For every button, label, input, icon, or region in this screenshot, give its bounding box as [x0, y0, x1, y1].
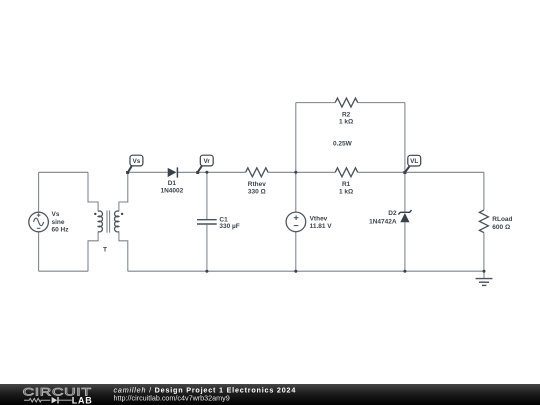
svg-text:Vthev: Vthev — [310, 216, 328, 223]
svg-text:VL: VL — [410, 158, 418, 165]
svg-text:1 kΩ: 1 kΩ — [339, 119, 353, 126]
svg-text:sine: sine — [52, 219, 65, 226]
wire C1 branch upper — [206, 172, 208, 219]
wire D2 lower — [404, 222, 406, 271]
svg-text:330 Ω: 330 Ω — [248, 189, 266, 196]
junction VL node — [403, 171, 406, 174]
voltage source Vthev — [286, 212, 332, 232]
wire D2 upper — [404, 172, 406, 212]
wire C1 branch lower — [206, 225, 208, 272]
capacitor C1 — [197, 217, 240, 231]
svg-text:60 Hz: 60 Hz — [52, 227, 70, 234]
ground — [476, 271, 493, 285]
wire RLoad vertical upper — [483, 172, 485, 210]
svg-text:600 Ω: 600 Ω — [492, 224, 510, 231]
junction Vthev top rail — [294, 171, 297, 174]
wire primary bottom lead — [88, 232, 98, 272]
wire R2 branch left vertical — [295, 103, 297, 173]
svg-text:R1: R1 — [342, 181, 351, 188]
resistor Rthev — [246, 168, 269, 196]
wire secondary bottom lead — [119, 232, 128, 272]
diode D1 — [161, 167, 184, 194]
wire left vertical top — [38, 172, 40, 212]
svg-text:Vs: Vs — [52, 211, 60, 218]
svg-text:LAB: LAB — [72, 395, 93, 405]
wire main top rail: node Vs to D1 — [128, 171, 168, 173]
wire bottom left loop — [39, 270, 88, 272]
node Vs flag — [126, 155, 143, 174]
wire Vthev lower — [295, 232, 297, 271]
junction D2 bottom rail — [403, 270, 406, 273]
resistor R1 — [335, 168, 358, 196]
wire secondary top lead — [119, 172, 128, 211]
svg-text:D1: D1 — [168, 180, 177, 187]
zener diode D2 — [369, 210, 411, 226]
wire RLoad vertical lower — [483, 233, 485, 272]
junction C1 top rail — [205, 171, 208, 174]
transformer T — [94, 210, 123, 253]
svg-text:1N4742A: 1N4742A — [369, 219, 397, 226]
junction Vthev bottom rail — [294, 270, 297, 273]
svg-text:http://circuitlab.com/c4v7wrb3: http://circuitlab.com/c4v7wrb32amy9 — [114, 393, 230, 402]
voltage source Vs — [29, 211, 69, 234]
wire R2 branch right vertical — [404, 103, 406, 173]
svg-text:1 kΩ: 1 kΩ — [339, 188, 353, 195]
resistor R2 — [333, 98, 358, 147]
wire Vthev upper — [295, 172, 297, 212]
footer bar — [0, 384, 540, 405]
svg-text:R2: R2 — [342, 111, 351, 118]
wire R2 top right — [358, 102, 405, 104]
svg-text:Vs: Vs — [132, 158, 140, 165]
svg-text:0.25W: 0.25W — [333, 141, 353, 148]
svg-text:1N4002: 1N4002 — [161, 187, 184, 194]
wire Rthev to R1 — [268, 171, 335, 173]
svg-text:Rthev: Rthev — [248, 181, 266, 188]
wire left vertical bottom — [38, 232, 40, 271]
wire R1 to RLoad corner — [358, 171, 484, 173]
svg-text:11.81 V: 11.81 V — [310, 223, 333, 230]
svg-text:Vr: Vr — [203, 158, 210, 165]
wire primary top lead — [88, 172, 98, 211]
node Vr flag — [196, 155, 213, 174]
junction RLoad ground — [483, 270, 486, 273]
resistor RLoad — [479, 210, 512, 233]
node VL flag — [403, 155, 420, 174]
svg-text:RLoad: RLoad — [492, 216, 512, 223]
wire bottom rail — [128, 270, 484, 272]
svg-text:T: T — [103, 246, 107, 253]
svg-text:330 µF: 330 µF — [219, 223, 239, 230]
wire R2 top left — [296, 102, 335, 104]
wire D1 to Rthev — [177, 171, 245, 173]
junction C1 bottom rail — [205, 270, 208, 273]
svg-text:D2: D2 — [388, 210, 397, 217]
wire top rail left loop — [39, 171, 88, 173]
